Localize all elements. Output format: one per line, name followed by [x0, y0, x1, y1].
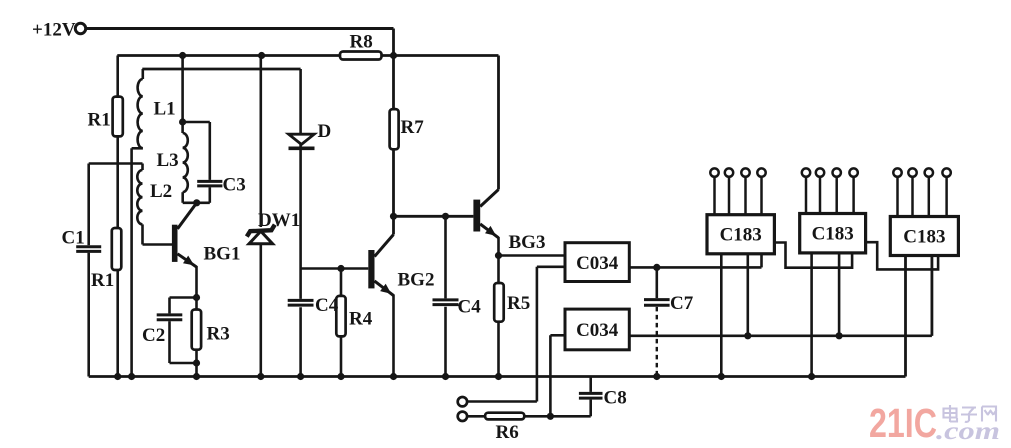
svg-text:C3: C3 [223, 175, 246, 196]
svg-text:DW1: DW1 [258, 210, 300, 231]
svg-text:BG2: BG2 [398, 270, 435, 291]
svg-text:L3: L3 [157, 150, 179, 171]
svg-text:C7: C7 [670, 293, 694, 314]
svg-text:C183: C183 [720, 225, 762, 246]
svg-text:C2: C2 [142, 325, 165, 346]
svg-text:R1: R1 [91, 270, 114, 291]
svg-text:D: D [318, 121, 332, 142]
svg-text:BG3: BG3 [509, 232, 546, 253]
svg-text:C4: C4 [315, 295, 339, 316]
svg-text:L2: L2 [150, 181, 172, 202]
svg-text:C183: C183 [903, 227, 945, 248]
svg-text:R3: R3 [207, 324, 230, 345]
svg-text:21IC: 21IC [869, 400, 937, 446]
svg-text:L1: L1 [154, 99, 176, 120]
svg-text:R4: R4 [349, 309, 373, 330]
svg-text:R8: R8 [350, 32, 373, 53]
svg-text:R7: R7 [401, 117, 425, 138]
svg-text:+12V: +12V [32, 20, 76, 41]
svg-text:R5: R5 [507, 293, 530, 314]
svg-text:C4: C4 [458, 297, 482, 318]
svg-text:C034: C034 [576, 253, 619, 274]
svg-text:C183: C183 [812, 224, 854, 245]
svg-text:C034: C034 [576, 320, 619, 341]
svg-text:R1: R1 [88, 110, 111, 131]
svg-text:C8: C8 [604, 388, 627, 409]
svg-text:C1: C1 [62, 228, 85, 249]
svg-text:BG1: BG1 [204, 244, 241, 265]
svg-text:R6: R6 [496, 422, 519, 443]
